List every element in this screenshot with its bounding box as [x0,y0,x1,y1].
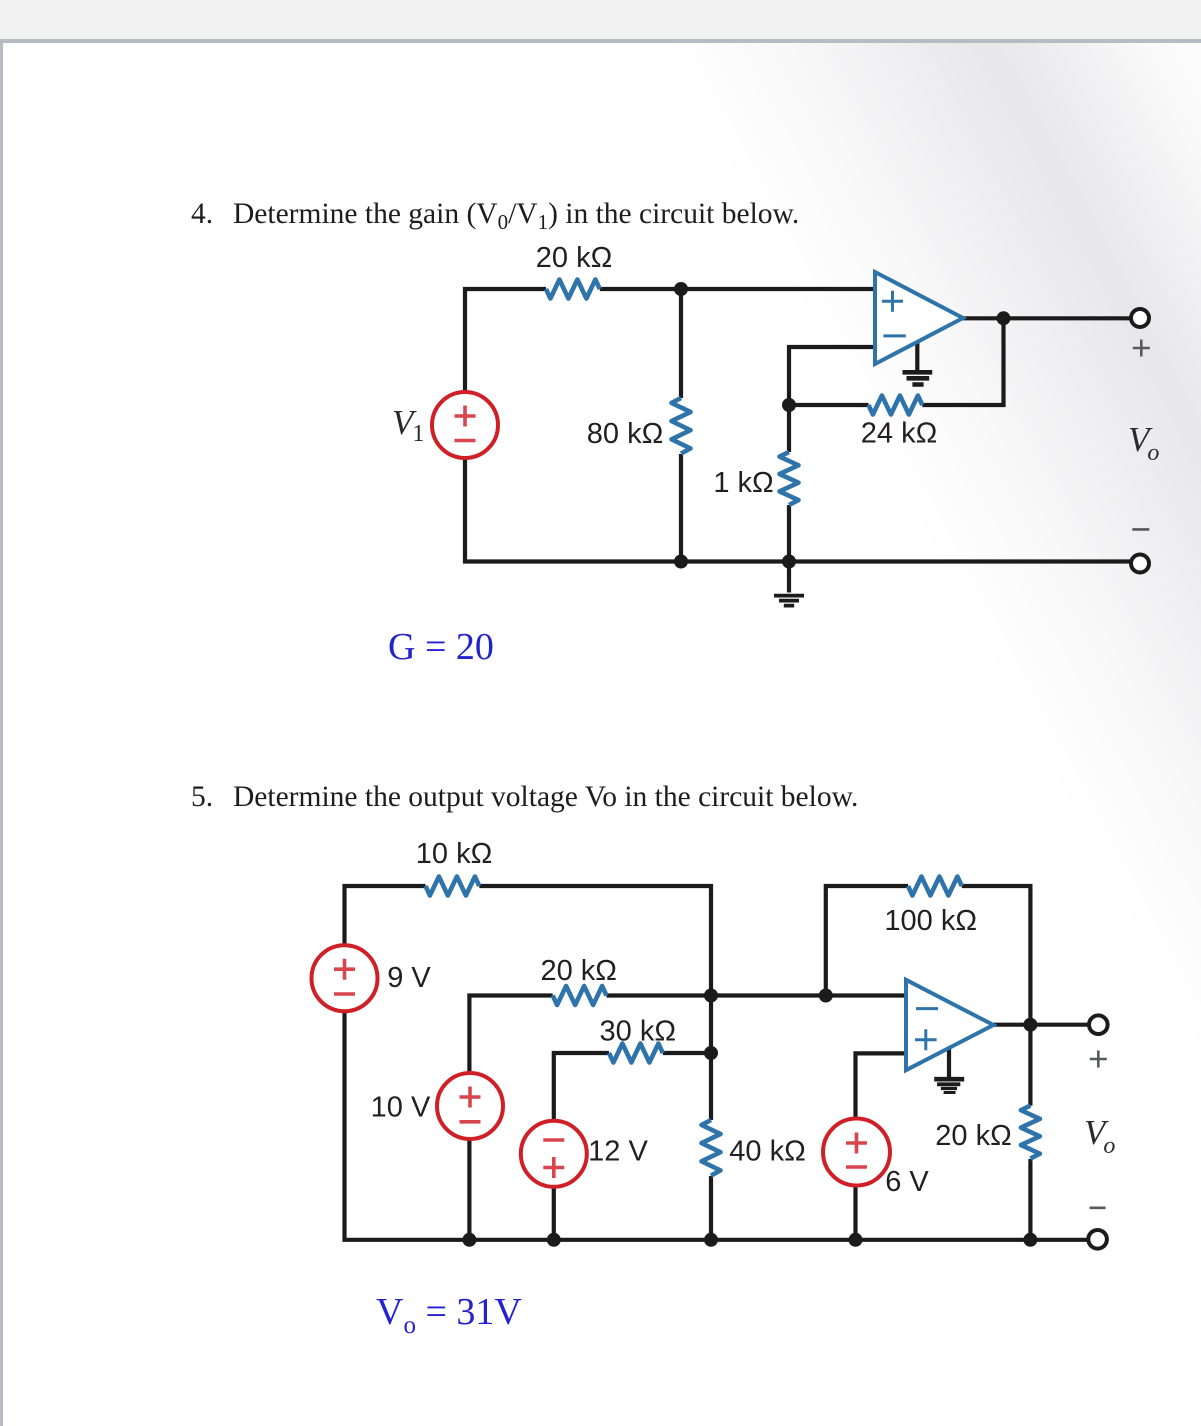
svg-text:1 kΩ: 1 kΩ [713,467,773,499]
svg-text:10 V: 10 V [371,1092,431,1124]
svg-text:4.Determine the gain (V0/V1) i: 4.Determine the gain (V0/V1) in the circ… [191,198,799,234]
svg-text:G = 20: G = 20 [388,626,494,668]
svg-text:12 V: 12 V [588,1136,648,1168]
svg-text:Vo: Vo [1084,1113,1115,1159]
svg-text:80 kΩ: 80 kΩ [587,418,664,450]
svg-text:9 V: 9 V [387,962,431,994]
svg-text:30 kΩ: 30 kΩ [600,1016,677,1048]
svg-text:40 kΩ: 40 kΩ [729,1136,806,1168]
svg-text:Vo = 31V: Vo = 31V [376,1291,522,1339]
svg-text:20 kΩ: 20 kΩ [935,1120,1012,1152]
svg-text:5.Determine the output voltage: 5.Determine the output voltage Vo in the… [191,781,858,813]
svg-text:V1: V1 [392,403,424,447]
svg-text:20 kΩ: 20 kΩ [536,242,613,274]
svg-text:24 kΩ: 24 kΩ [861,418,938,450]
svg-text:20 kΩ: 20 kΩ [540,955,617,987]
svg-text:10 kΩ: 10 kΩ [416,838,493,870]
svg-text:Vo: Vo [1128,420,1159,466]
svg-text:100 kΩ: 100 kΩ [884,905,977,937]
svg-text:6 V: 6 V [885,1166,929,1198]
